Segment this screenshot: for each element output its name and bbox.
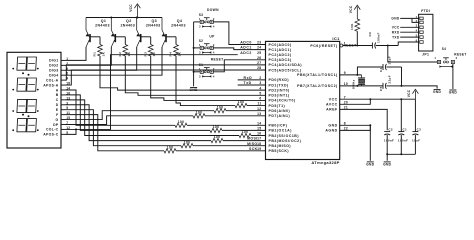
transistor Q4 2N4403 (PNP, mirrored) (165, 34, 167, 42)
ground GND (buttons) (190, 87, 197, 89)
svg-text:3: 3 (199, 25, 201, 29)
svg-text:6: 6 (416, 38, 418, 42)
display pin stub DIG3 (61, 69, 66, 71)
svg-text:Q2: Q2 (126, 19, 132, 23)
svg-text:RESET: RESET (211, 58, 224, 62)
svg-text:24: 24 (257, 46, 261, 50)
svg-text:100: 100 (167, 145, 174, 149)
wire Q1 base to R1 (99, 37, 101, 45)
wire S3 to PC0 pin 23 (ADC0) (213, 22, 265, 45)
svg-text:100: 100 (238, 100, 245, 104)
svg-text:RESET: RESET (454, 53, 466, 57)
svg-text:PB7(XTAL2/TOSC2): PB7(XTAL2/TOSC2) (297, 84, 338, 88)
svg-text:MOSI: MOSI (247, 137, 257, 141)
svg-text:GND: GND (189, 88, 198, 92)
svg-text:VCC: VCC (392, 26, 400, 30)
svg-text:6: 6 (259, 97, 261, 101)
resistor 100 ohm (segment D) (211, 138, 223, 142)
svg-text:AGND: AGND (325, 129, 337, 133)
svg-text:DIG2: DIG2 (49, 64, 58, 68)
connector pin pad 4 (420, 31, 423, 34)
wire Q1 base stub (90, 36, 100, 38)
svg-text:100nF: 100nF (398, 139, 408, 143)
svg-text:VCC: VCC (129, 4, 133, 12)
svg-text:100: 100 (217, 105, 224, 109)
crystal Q5 8MHz (361, 75, 363, 78)
resistor 100 ohm (segment A) (175, 123, 187, 127)
display pin stub DIG4 (61, 74, 66, 76)
wire segment F to IC (176, 150, 266, 152)
svg-text:DOWN: DOWN (207, 8, 219, 12)
wire VCC pin 7 rail (340, 98, 416, 100)
wire XTAL1 pin 9 (340, 74, 362, 76)
svg-text:PD2(INT0): PD2(INT0) (269, 88, 290, 92)
display module LED1 box (7, 52, 61, 148)
wire R3 to PD4 pin 6 (151, 56, 266, 100)
svg-text:2N4403: 2N4403 (171, 24, 186, 28)
wire segment B to IC (222, 129, 266, 131)
svg-text:APOS-C: APOS-C (43, 133, 58, 137)
svg-text:5: 5 (259, 91, 261, 95)
svg-text:ADC1: ADC1 (240, 46, 252, 50)
svg-text:A: A (56, 88, 59, 92)
svg-text:1K: 1K (102, 51, 106, 56)
wire C1 top to rail (400, 99, 402, 131)
svg-text:15: 15 (257, 127, 261, 131)
7-segment digit pair 2 (17, 78, 27, 91)
wire to FTDI pin 6 (398, 42, 418, 46)
wire caps to GND (402, 86, 438, 89)
svg-text:100: 100 (196, 110, 203, 114)
svg-text:100: 100 (178, 120, 185, 124)
svg-text:MISO: MISO (247, 142, 257, 146)
svg-text:1: 1 (434, 56, 436, 60)
svg-text:PC1(ADC1): PC1(ADC1) (269, 48, 292, 52)
transistor Q3 2N4403 (PNP, mirrored) (140, 34, 142, 42)
wire segment E to IC (193, 145, 266, 147)
svg-text:26: 26 (257, 56, 261, 60)
svg-text:3: 3 (259, 81, 261, 85)
resistor 100 ohm (segment DP) (193, 114, 205, 118)
svg-text:TxD: TxD (244, 81, 252, 85)
wire segment B run (66, 95, 211, 130)
wire COL-A to PC4 pin 27 (66, 65, 266, 80)
svg-text:GND: GND (383, 163, 392, 167)
junction bus/S1 (193, 71, 195, 73)
svg-text:8MHz: 8MHz (351, 79, 355, 89)
svg-text:AREF: AREF (326, 108, 338, 112)
wire DIG4 to Q4 collector (66, 47, 163, 75)
wire R4 to PD5 pin 11 (176, 56, 235, 106)
wire VCC rail (86, 17, 162, 19)
svg-text:PB5(SCK): PB5(SCK) (269, 149, 290, 153)
svg-text:PD3(INT1): PD3(INT1) (269, 94, 290, 98)
7-segment digit pair 4 (17, 119, 27, 132)
junction XTAL2 (356, 85, 358, 87)
svg-text:4: 4 (213, 25, 215, 29)
wire R1 to PD2 pin 4 (100, 56, 266, 90)
svg-text:AVCC: AVCC (326, 103, 338, 107)
svg-text:S2: S2 (199, 39, 204, 43)
resistor R1 1K (98, 45, 103, 57)
wire segment A run (66, 90, 176, 125)
svg-text:2: 2 (213, 17, 215, 21)
svg-text:25: 25 (257, 51, 261, 55)
wire segment D run (66, 105, 212, 141)
svg-text:PC0(ADC0): PC0(ADC0) (269, 43, 292, 47)
svg-text:7: 7 (344, 95, 346, 99)
wire XTAL1 to C4 (357, 67, 383, 75)
svg-text:F: F (56, 113, 58, 117)
ground GND (IC) (367, 161, 374, 163)
display pin stub G (61, 119, 66, 121)
svg-text:3: 3 (199, 74, 201, 78)
resistor 100 ohm (segment B) (210, 128, 222, 132)
wire segment D to IC (223, 140, 266, 142)
svg-text:DP: DP (53, 123, 59, 127)
svg-text:DIG4: DIG4 (49, 73, 58, 77)
wire cap gnd bus vertical (401, 67, 403, 86)
svg-text:GND: GND (433, 90, 442, 94)
svg-text:PB2(SS/OC1B): PB2(SS/OC1B) (269, 134, 300, 138)
svg-text:PD0(RXD): PD0(RXD) (269, 78, 290, 82)
junction XTAL1 (356, 74, 358, 76)
svg-text:R4: R4 (169, 52, 173, 57)
svg-text:2: 2 (259, 76, 261, 80)
svg-text:FTDI: FTDI (421, 9, 430, 13)
svg-text:TXD: TXD (392, 35, 400, 39)
svg-text:1: 1 (199, 17, 201, 21)
display pin stub DP (61, 123, 66, 125)
junction VCC/rail (136, 17, 138, 19)
junction bottom rail C2 (386, 153, 388, 155)
wire RESET to S4 (388, 46, 438, 63)
wire S2 to PC1 pin 24 (ADC1) (213, 48, 265, 50)
wire C5 to gnd bus (386, 85, 401, 87)
svg-text:ATmega328P: ATmega328P (311, 160, 339, 165)
svg-text:R2: R2 (118, 52, 122, 57)
svg-text:JP1: JP1 (422, 53, 429, 57)
svg-text:Q4: Q4 (177, 19, 183, 23)
wire to pin 11 (247, 105, 266, 107)
wire TXD to pin5 (400, 36, 418, 38)
wire DIG1 to Q1 collector (66, 47, 87, 60)
display pin stub DIG2 (61, 64, 66, 66)
svg-text:20: 20 (344, 100, 348, 104)
svg-text:22: 22 (344, 127, 348, 131)
power symbol VCC (top rail) (134, 4, 140, 8)
capacitor C4 22pF (382, 64, 384, 70)
transistor Q1 2N4403 (PNP, mirrored) (89, 34, 91, 42)
wire segment G to IC (226, 110, 266, 112)
svg-text:GND: GND (328, 124, 337, 128)
wire C3 top to rail (414, 99, 416, 131)
wire Q4 base stub (166, 36, 176, 38)
capacitor C1 100nF (398, 131, 404, 133)
colon dots lower (22, 114, 24, 116)
svg-text:PC4(ADC4/SDA): PC4(ADC4/SDA) (269, 63, 303, 67)
wire Q4 base to R4 (175, 37, 177, 45)
svg-text:2N4403: 2N4403 (146, 24, 161, 28)
svg-text:DIG1: DIG1 (49, 59, 58, 63)
svg-text:22pF: 22pF (388, 75, 392, 84)
capacitor C5 22pF (382, 83, 384, 89)
capacitor C2 100nF (384, 131, 390, 133)
junction rail/C1 (400, 98, 402, 100)
junction COL-C/APOS-C (75, 128, 77, 130)
svg-text:14: 14 (257, 121, 261, 125)
svg-text:16: 16 (257, 132, 261, 136)
svg-text:19: 19 (257, 147, 261, 151)
svg-text:COL-C: COL-C (46, 128, 59, 132)
svg-text:PC5(ADC5/SCL): PC5(ADC5/SCL) (269, 68, 302, 72)
power symbol VCC (10K pullup) (354, 5, 360, 9)
svg-text:SCK: SCK (249, 147, 258, 151)
connector pin pad 2 (420, 21, 423, 24)
wire RESET from PC6 to C6 (343, 45, 373, 47)
7-segment digit pair 3 (17, 99, 27, 112)
svg-text:8: 8 (344, 121, 346, 125)
svg-text:13: 13 (257, 112, 261, 116)
svg-text:100nF: 100nF (376, 32, 380, 43)
wire segment C to IC (251, 135, 266, 137)
svg-text:S4: S4 (442, 47, 447, 51)
svg-text:C: C (56, 98, 59, 102)
wire C4 to gnd bus (386, 66, 401, 68)
svg-text:C1: C1 (403, 128, 408, 132)
connector pin pad 1 (420, 17, 423, 20)
svg-text:1K: 1K (127, 51, 131, 56)
wire GND to pin2 (412, 18, 419, 22)
wire segment G run (66, 111, 215, 120)
wire segment E run (66, 110, 182, 146)
svg-text:R3: R3 (143, 52, 147, 57)
svg-text:17: 17 (257, 137, 261, 141)
svg-text:S1: S1 (199, 63, 204, 67)
wire GND bus to S2 (194, 47, 201, 49)
svg-text:1K: 1K (178, 51, 182, 56)
wire GND bus to S3 (194, 21, 201, 23)
wire APOS-C join to COL-C (66, 129, 77, 134)
svg-text:D: D (56, 103, 59, 107)
wire GND pin 8 down (340, 125, 371, 160)
connector pin pad 3 (420, 26, 423, 29)
junction cap gnd tee (401, 85, 403, 87)
svg-text:2: 2 (213, 43, 215, 47)
svg-text:11: 11 (257, 102, 261, 106)
svg-text:Q3: Q3 (151, 19, 157, 23)
svg-text:18: 18 (257, 142, 261, 146)
wire C2 bottom (386, 135, 388, 154)
svg-text:VCC: VCC (349, 5, 353, 13)
svg-text:G: G (56, 118, 59, 122)
svg-text:C6: C6 (368, 32, 372, 37)
resistor R3 1K (148, 45, 153, 57)
svg-text:1: 1 (199, 43, 201, 47)
connector pin pad 6 (420, 41, 423, 44)
capacitor C3 10uF (412, 131, 418, 133)
wire XTAL2 pin 10 (340, 85, 362, 87)
svg-text:S3: S3 (199, 13, 204, 17)
svg-text:27: 27 (257, 61, 261, 65)
wire segment C run (66, 100, 240, 136)
svg-text:COL-A: COL-A (46, 78, 59, 82)
resistor 100 ohm (segment G) (214, 108, 226, 112)
svg-text:28: 28 (257, 66, 261, 70)
svg-text:22pF: 22pF (388, 56, 392, 65)
wire AGND pin 22 join (340, 125, 371, 130)
display pin stub APOS-C (61, 133, 66, 135)
svg-text:UP: UP (209, 35, 215, 39)
svg-text:C2: C2 (388, 128, 393, 132)
pushbutton S2 (UP) (200, 46, 203, 49)
svg-text:100: 100 (242, 130, 249, 134)
display pin stub A (61, 89, 66, 91)
wire Q3 base stub (141, 36, 151, 38)
wire C1 bottom (400, 135, 402, 154)
svg-text:1: 1 (199, 67, 201, 71)
wire TxD stub pin 3 (238, 84, 266, 86)
colon dots upper (22, 72, 24, 74)
wire GND to pin1 (400, 17, 418, 19)
wire C3 bottom (414, 135, 416, 154)
wire R2 to PD3 pin 5 (125, 56, 265, 95)
transistor Q2 2N4403 (PNP, mirrored) (114, 34, 116, 42)
svg-text:10uF: 10uF (412, 139, 420, 143)
junction VCC/AVCC (369, 98, 371, 100)
wire Q2 base stub (115, 36, 125, 38)
resistor R5 10K (355, 19, 360, 31)
svg-text:RESET: RESET (343, 43, 357, 47)
wire AVCC pin 20 join (340, 99, 371, 104)
svg-text:C3: C3 (417, 128, 422, 132)
svg-text:IC1: IC1 (332, 36, 340, 41)
svg-text:4: 4 (213, 74, 215, 78)
svg-text:PB0(ICP): PB0(ICP) (269, 124, 288, 128)
wire cap bottom rail (387, 153, 415, 155)
display pin stub E (61, 109, 66, 111)
display pin stub COL-C (61, 128, 66, 130)
svg-text:100: 100 (184, 140, 191, 144)
svg-text:100: 100 (214, 135, 221, 139)
PC6 inversion bubble (340, 44, 343, 47)
wire XTAL2 to C5 (362, 85, 384, 87)
wire VCC to pin3 (400, 26, 418, 28)
svg-text:PD6(AIN0): PD6(AIN0) (269, 109, 291, 113)
wire Q3 base to R3 (150, 37, 152, 45)
wire Q2 base to R2 (124, 37, 126, 45)
wire APOS-A to PC5 pin 28 (66, 70, 266, 85)
wire COL-C/APOS-C up to PC2 pin 25 (66, 55, 238, 130)
display pin stub APOS-A (61, 84, 66, 86)
ground GND (caps) (384, 161, 391, 163)
wire S4 to GND (452, 64, 454, 89)
svg-text:PB1(OC1A): PB1(OC1A) (269, 129, 292, 133)
svg-text:PB4(MISO): PB4(MISO) (269, 144, 292, 148)
svg-text:2: 2 (213, 67, 215, 71)
svg-text:PC3(ADC3): PC3(ADC3) (269, 58, 292, 62)
svg-text:PD5(T1): PD5(T1) (269, 104, 286, 108)
svg-text:GND: GND (366, 163, 375, 167)
ground GND (crystal caps) (434, 89, 441, 91)
wire segment DP run (66, 116, 194, 125)
svg-text:2N4403: 2N4403 (95, 24, 110, 28)
display pin stub DIG1 (61, 59, 66, 61)
svg-text:B: B (56, 93, 59, 97)
wire DIG3 to Q3 collector (66, 47, 137, 70)
wire RXD to pin4 (400, 31, 418, 33)
wire AREF pin 21 to C2 (340, 109, 388, 130)
pushbutton S1 (RESET) (200, 70, 203, 73)
svg-text:2N4403: 2N4403 (120, 24, 135, 28)
svg-text:DIG3: DIG3 (49, 69, 58, 73)
svg-text:PC6(/RESET): PC6(/RESET) (310, 44, 337, 48)
pushbutton S3 (DOWN) (200, 20, 203, 23)
wire bottom rail to GND (386, 154, 388, 160)
resistor R2 1K (123, 45, 128, 57)
svg-text:GND: GND (449, 91, 458, 95)
svg-text:100nF: 100nF (384, 139, 394, 143)
resistor 100 ohm (digit drive) (235, 103, 247, 107)
svg-text:4: 4 (213, 51, 215, 55)
svg-text:R1: R1 (93, 52, 97, 57)
wire GND bus to S1 (194, 71, 201, 73)
svg-text:10K: 10K (350, 23, 354, 30)
svg-text:Q1: Q1 (101, 19, 107, 23)
resistor R4 1K (174, 45, 179, 57)
7-segment digit pair 1 (17, 57, 27, 70)
svg-text:PB6(XTAL1/TOSC1): PB6(XTAL1/TOSC1) (297, 73, 338, 77)
wire segment F run (66, 115, 165, 151)
display pin stub C (61, 99, 66, 101)
ground GND (S4) (449, 89, 456, 91)
svg-text:C4: C4 (379, 67, 383, 72)
wire RxD stub pin 2 (238, 79, 266, 81)
junction 10K/RESET (356, 45, 358, 47)
IC IC1 ATmega328P box (266, 41, 340, 159)
resistor 100 ohm (segment E) (181, 144, 193, 148)
junction GND/AGND (369, 124, 371, 126)
svg-text:PD1(TXD): PD1(TXD) (269, 83, 289, 87)
svg-text:4: 4 (259, 86, 261, 90)
svg-text:2: 2 (456, 56, 458, 60)
svg-text:3: 3 (199, 51, 201, 55)
display pin stub COL-A (61, 79, 66, 81)
wire button GND bus (193, 22, 195, 86)
capacitor C6 100nF (DTR reset) (371, 43, 373, 49)
svg-text:ADC2: ADC2 (240, 51, 252, 55)
resistor 100 ohm (segment C) (239, 133, 251, 137)
display pin stub F (61, 114, 66, 116)
resistor 100 ohm (segment F) (164, 149, 176, 153)
svg-text:VCC: VCC (329, 98, 338, 102)
svg-text:RXD: RXD (392, 30, 400, 34)
svg-text:23: 23 (257, 41, 261, 45)
svg-text:100: 100 (213, 125, 220, 129)
wire segment A to IC (187, 124, 266, 126)
svg-text:PB3(MOSI/OC2): PB3(MOSI/OC2) (269, 139, 302, 143)
junction RESET/S4 branch (387, 45, 389, 47)
display pin stub D (61, 104, 66, 106)
svg-text:RxD: RxD (244, 76, 253, 80)
svg-text:PD7(AIN1): PD7(AIN1) (269, 114, 291, 118)
display pin stub B (61, 94, 66, 96)
junction bus/S2 (193, 47, 195, 49)
wire C6 to FTDI DTR elbow (376, 45, 398, 47)
svg-text:12: 12 (257, 107, 261, 111)
connector JP1 FTDI box (419, 14, 433, 51)
svg-text:VCC: VCC (407, 89, 411, 97)
